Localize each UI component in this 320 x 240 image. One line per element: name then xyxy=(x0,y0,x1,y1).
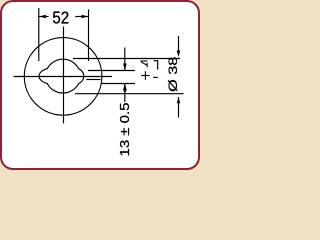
horizontal centerline xyxy=(14,76,113,78)
glyph 1 xyxy=(157,60,159,69)
inner keyed hole xyxy=(39,59,83,93)
extension line: tab bottom edge (short) xyxy=(86,79,100,81)
tolerance text +2 (hand-drawn rotated glyphs) xyxy=(141,61,150,80)
dim line +2/-1: upper segment with down arrow xyxy=(123,48,127,71)
dimension Ø38: lower segment with up arrow xyxy=(177,97,181,118)
glyph minus xyxy=(153,76,158,78)
vertical centerline xyxy=(63,27,65,124)
glyph + xyxy=(141,75,150,77)
dimension 52: dim line right segment with arrow xyxy=(75,15,88,19)
extension line: hole bottom tangent xyxy=(75,93,184,95)
tolerance text -1 (hand-drawn glyphs) xyxy=(153,60,158,77)
extension line: hole top tangent xyxy=(73,58,180,60)
svg-text:Ø 38: Ø 38 xyxy=(167,57,180,92)
dimension 52: left extension line xyxy=(38,8,40,61)
extension line: tab top edge xyxy=(88,70,135,72)
extension line: from circle edge xyxy=(101,83,136,85)
glyph 2 xyxy=(141,60,148,62)
big circle (mounting face) xyxy=(24,38,102,116)
dim line 13±0.5: middle segment, up arrow at 83.5, down arrow at 93.7, tail to 102 xyxy=(123,84,127,103)
svg-text:13 ± 0.5: 13 ± 0.5 xyxy=(117,102,132,156)
dimension Ø38: upper segment with down arrow xyxy=(177,36,181,57)
dimension 52: right extension line xyxy=(88,9,90,61)
svg-text:52: 52 xyxy=(52,8,69,27)
dimension 52: dim line left segment with arrow xyxy=(39,15,49,19)
